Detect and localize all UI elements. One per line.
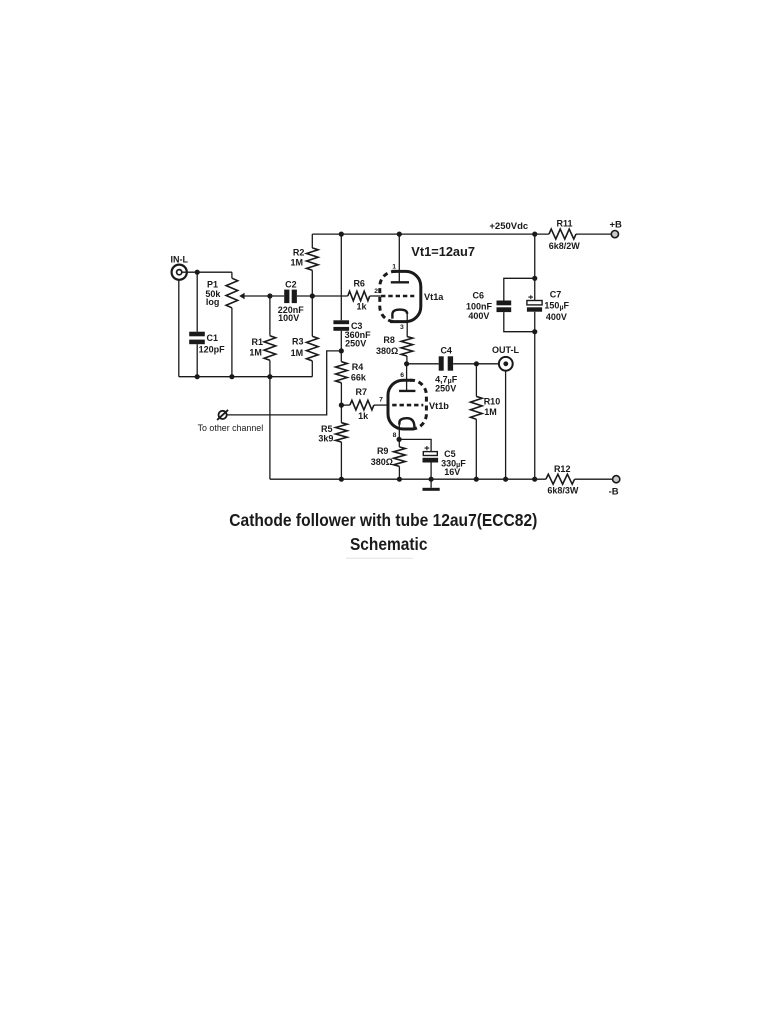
ground symbol	[423, 479, 440, 491]
junction dot rail-C5	[429, 477, 434, 482]
wire rail R12 to -B	[575, 478, 613, 480]
terminal -B	[609, 476, 620, 498]
resistor R9 380ohm	[371, 439, 405, 479]
svg-text:C2: C2	[285, 280, 297, 290]
junction dot rail-R5	[339, 477, 344, 482]
svg-text:Cathode follower with tube 12a: Cathode follower with tube 12au7(ECC82)	[229, 510, 537, 530]
svg-text:Vt1b: Vt1b	[429, 401, 449, 411]
faint underline	[346, 557, 413, 559]
wire C6-C7 column	[534, 234, 536, 479]
svg-text:8: 8	[393, 432, 397, 439]
svg-text:-B: -B	[609, 486, 619, 497]
svg-text:2: 2	[374, 288, 378, 295]
junction dot P1 bottom	[229, 374, 234, 379]
input jack IN-L	[171, 255, 189, 280]
capacitor C4 4.7uF 250V	[435, 346, 458, 394]
junction dot R1 top	[267, 293, 272, 298]
junction dot C1 bottom	[195, 374, 200, 379]
svg-text:R4: R4	[352, 362, 364, 372]
svg-text:R7: R7	[356, 387, 368, 397]
svg-text:1M: 1M	[249, 348, 262, 358]
tube Vt1b grid	[392, 404, 423, 407]
svg-text:R2: R2	[293, 248, 305, 258]
svg-text:To other channel: To other channel	[198, 423, 264, 433]
wire C4 to OUT-L	[453, 363, 499, 365]
wire C6 bracket	[504, 278, 535, 331]
junction dot rail-R11 node	[532, 232, 537, 237]
resistor R11 6k8/2W	[549, 219, 581, 252]
resistor R5 3k9	[318, 405, 347, 479]
svg-text:3: 3	[400, 324, 404, 331]
svg-text:R3: R3	[292, 337, 304, 347]
svg-text:+250Vdc: +250Vdc	[489, 221, 528, 232]
svg-text:R8: R8	[383, 335, 395, 345]
wire ground drop to bottom rail	[269, 377, 271, 480]
output jack OUT-L	[492, 345, 519, 370]
svg-text:IN-L: IN-L	[171, 255, 189, 265]
svg-text:6k8/3W: 6k8/3W	[547, 486, 579, 496]
wire rail R11 to +B	[576, 233, 611, 235]
svg-text:1M: 1M	[484, 407, 497, 417]
svg-text:R10: R10	[484, 397, 501, 407]
resistor R8 380ohm	[376, 335, 413, 364]
resistor R7 1k	[341, 387, 374, 421]
svg-text:1: 1	[392, 263, 396, 270]
resistor R12 6k8/3W	[546, 464, 579, 496]
svg-text:250V: 250V	[345, 339, 366, 349]
wire to other channel link	[227, 351, 341, 415]
tube triode Vt1b envelope	[388, 380, 449, 429]
svg-text:C6: C6	[473, 291, 485, 301]
capacitor C3 360nF 250V	[333, 234, 371, 351]
svg-text:6k8/2W: 6k8/2W	[549, 241, 581, 251]
svg-text:Vt1=12au7: Vt1=12au7	[411, 244, 475, 259]
wire C2 to R6	[297, 295, 348, 297]
svg-text:R9: R9	[377, 446, 389, 456]
svg-text:Schematic: Schematic	[350, 534, 428, 554]
svg-text:R1: R1	[252, 337, 264, 347]
svg-text:+B: +B	[609, 219, 622, 230]
svg-text:380Ω: 380Ω	[376, 346, 398, 356]
junction dot C6 top node	[532, 276, 537, 281]
wire top +250V supply rail	[312, 233, 549, 235]
wire R7 to grid pin 7	[374, 397, 389, 406]
wire OUT-L ground drop	[505, 371, 507, 480]
svg-text:66k: 66k	[351, 372, 367, 382]
resistor R6 1k	[348, 278, 370, 311]
svg-text:R11: R11	[556, 219, 572, 229]
svg-text:100V: 100V	[278, 313, 299, 323]
capacitor C5 330uF 16V electrolytic	[423, 446, 467, 479]
resistor R1 1M	[249, 296, 275, 377]
junction dot input node A	[195, 270, 200, 275]
junction dot rail-R10	[474, 477, 479, 482]
svg-text:150µF: 150µF	[544, 301, 569, 312]
svg-text:C4: C4	[440, 346, 452, 356]
wire node to C4	[407, 363, 439, 365]
tube Vt1b cathode pin 8	[393, 418, 415, 439]
potentiometer P1 50k log	[205, 272, 237, 377]
svg-text:1k: 1k	[358, 411, 369, 421]
svg-text:log: log	[206, 297, 220, 307]
wire IN-L ground drop	[178, 280, 180, 377]
svg-text:1k: 1k	[356, 302, 367, 312]
svg-text:400V: 400V	[546, 312, 567, 322]
svg-text:C7: C7	[550, 289, 562, 299]
svg-text:R6: R6	[353, 278, 365, 288]
svg-text:400V: 400V	[468, 311, 489, 321]
wire input ground bus	[179, 376, 312, 378]
tube Vt1a anode pin 1	[391, 234, 409, 282]
svg-text:250V: 250V	[435, 384, 456, 394]
junction dot C3-R4 node	[339, 348, 344, 353]
capacitor C2 220nF 100V	[278, 280, 305, 323]
junction dot R1 bottom	[267, 374, 272, 379]
capacitor C6 100nF 400V	[466, 291, 511, 321]
tube triode Vt1a envelope	[380, 271, 444, 321]
junction dot R8-C4-Vt1b node	[404, 361, 409, 366]
junction dot rail-C7 column	[532, 477, 537, 482]
svg-text:1M: 1M	[291, 348, 304, 358]
wire bottom rail left	[270, 478, 546, 480]
junction dot C6 bottom node	[532, 329, 537, 334]
svg-text:1M: 1M	[291, 258, 304, 268]
wire IN-L to P1 top	[182, 271, 232, 273]
capacitor C7 150uF 400V electrolytic	[527, 289, 570, 322]
svg-text:OUT-L: OUT-L	[492, 345, 519, 355]
wire cathode node to C5	[399, 439, 431, 451]
junction dot rail-C3 column	[339, 232, 344, 237]
resistor R10 1M	[471, 364, 501, 479]
svg-text:120pF: 120pF	[199, 344, 226, 354]
tube Vt1b anode pin 6	[399, 364, 415, 391]
junction dot R4-R5-R7 node	[339, 403, 344, 408]
svg-text:6: 6	[400, 372, 404, 379]
junction dot rail-R9	[397, 477, 402, 482]
junction dot Vt1b cathode node	[397, 437, 402, 442]
svg-text:16V: 16V	[444, 467, 460, 477]
svg-text:Vt1a: Vt1a	[424, 292, 444, 302]
junction dot C2-R2 node B	[310, 293, 315, 298]
junction dot C4-R10 node	[474, 361, 479, 366]
svg-text:R12: R12	[554, 464, 571, 474]
svg-text:C1: C1	[207, 333, 219, 343]
junction dot rail-OUT ground	[503, 477, 508, 482]
tube Vt1a grid	[381, 295, 414, 298]
resistor R2 1M	[291, 234, 319, 296]
junction dot rail-Vt1a anode	[397, 232, 402, 237]
resistor R4 66k	[336, 351, 367, 405]
terminal to other channel	[198, 410, 264, 433]
P1 wiper arrow	[239, 293, 284, 299]
capacitor C1 120pF	[189, 272, 225, 377]
resistor R3 1M	[291, 296, 318, 377]
svg-text:3k9: 3k9	[318, 433, 333, 443]
wire R6 to grid pin 2	[370, 288, 381, 296]
tube Vt1a cathode pin 3	[392, 310, 407, 337]
svg-text:7: 7	[379, 397, 383, 404]
terminal +B	[609, 219, 622, 237]
svg-text:380Ω: 380Ω	[371, 457, 393, 467]
